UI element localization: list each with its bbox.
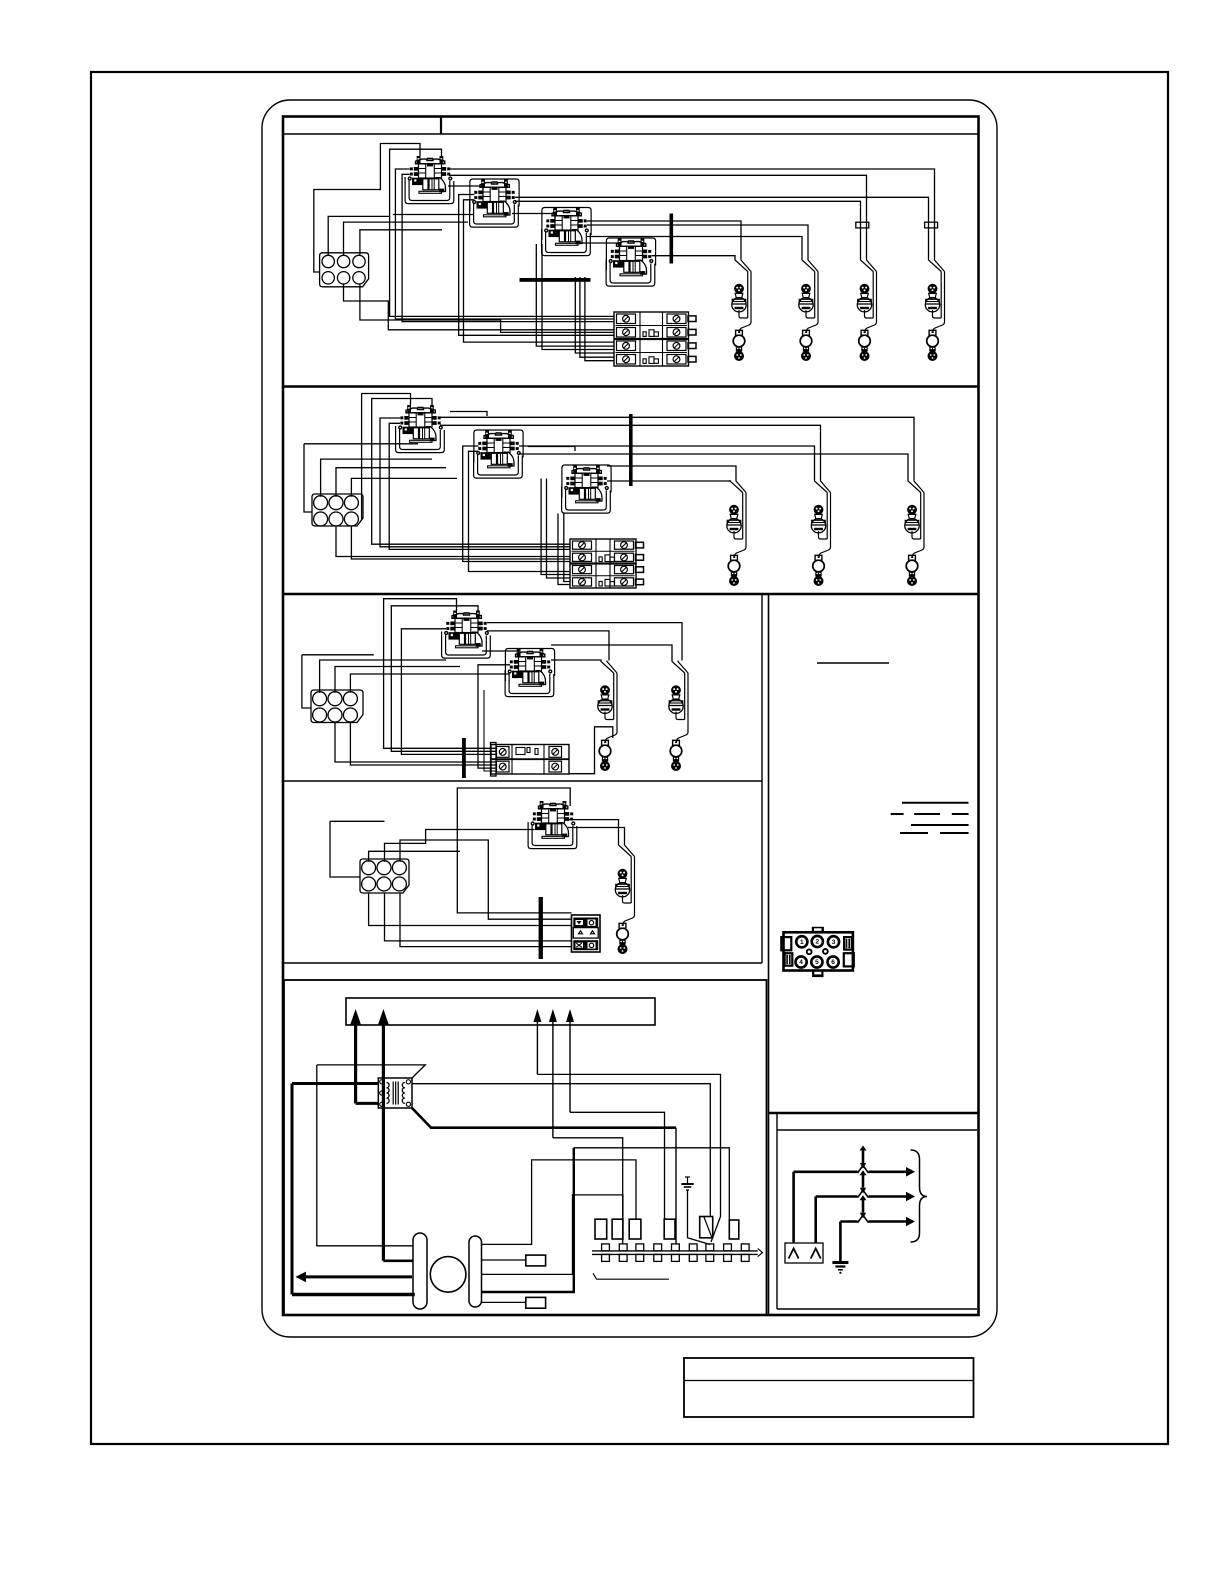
power connector block PL4 (section 4) — [360, 859, 409, 893]
bus: M5 to column 3 (s2) — [440, 417, 914, 480]
power source box — [785, 1243, 823, 1263]
fuse+heating element column 1 (section 3) — [598, 661, 617, 772]
outer border frame — [91, 72, 1168, 1444]
wire: thick bottom run to motor — [292, 1293, 415, 1297]
wire: M2 left to breaker row2c — [459, 195, 614, 336]
note underline upper — [817, 662, 889, 664]
circuit breaker CB5 (section 3) — [491, 745, 569, 775]
contactor M9 (section 3) — [505, 649, 554, 697]
svg-text:1: 1 — [800, 939, 804, 946]
wire: connector pin4 drop (s4) — [369, 893, 572, 926]
wire: M5 left to breaker b (s2) — [389, 423, 570, 549]
wire: M6 drop b (s2) — [547, 479, 571, 579]
wire: M9 drop (s3) — [484, 690, 497, 771]
wire: connector pin2 riser (s4) — [385, 830, 535, 862]
wire: M4 bottom to breaker row4c — [585, 277, 614, 361]
contactor M6 (section 2) — [474, 431, 523, 479]
field wiring disconnect row 3 — [840, 1195, 915, 1226]
divider section1/section2 — [283, 385, 979, 388]
fuse+heating element column 2 (section 2) — [811, 480, 830, 586]
circuit breaker CB6 (section 4) — [572, 915, 601, 952]
thick supply arrow L1 — [350, 1009, 361, 1025]
wire: connector pin6 drop (s3) — [350, 723, 497, 766]
wire: connector pin5 drop (s4) — [385, 893, 572, 941]
wire: transformer diagonal thick to terminal 5 — [412, 1108, 676, 1128]
wire: motor to relay 2 chain — [482, 1195, 623, 1275]
control bus bar — [346, 998, 655, 1025]
fuse+heating element column 2 (section 3) — [669, 661, 688, 772]
wire: control 2 chain to terminal 2 — [553, 1138, 623, 1244]
bus: M2 to column 3 inner — [515, 201, 861, 259]
wire: connector pin1 riser (s3) — [320, 660, 446, 693]
wire: disconnect feed 3 to ground — [839, 1222, 842, 1262]
wire: M5 left to breaker (s2) — [380, 418, 570, 547]
contactor M8 (section 3) — [442, 611, 491, 659]
control arrow 1 — [533, 1009, 541, 1022]
wire: thick motor chain up — [482, 1148, 574, 1292]
wire: thick left vertical — [291, 1084, 294, 1295]
svg-text:4: 4 — [799, 959, 803, 966]
section5 box — [284, 980, 767, 1315]
wire staple around M9 — [505, 649, 554, 682]
wire: left link (s2) — [304, 443, 418, 445]
bottom-right box left edge — [776, 1113, 778, 1309]
wire: connector pin5 to breaker row2 — [344, 284, 615, 330]
right column divider — [768, 594, 770, 1315]
ground symbol (field) — [832, 1263, 848, 1274]
wire: M6 drop (s2) — [541, 479, 570, 575]
rounded enclosure outline — [262, 100, 997, 1337]
wire: motor to relay 3 chain — [482, 1160, 637, 1245]
wire: transformer secondary to relay 5 — [412, 1084, 710, 1217]
terminal strip — [592, 1250, 758, 1252]
wire: M4 bottom to breaker row4b — [580, 277, 614, 357]
insulator bar (section 4) — [539, 897, 543, 959]
wire: M9 top post step (s3) — [482, 651, 519, 656]
note text line 3 — [911, 824, 969, 826]
fuse+heating element column 2 (section 1) — [799, 259, 818, 361]
bus: M3 to column 2 inner — [587, 237, 802, 260]
wire: connector pin2 riser (s3) — [335, 667, 460, 693]
wire: M8 left to breaker (s3) — [401, 629, 497, 755]
bus: M1 to column 3 — [449, 175, 867, 259]
insulator bar (section 1 mid) — [520, 278, 591, 282]
ground symbol (control) — [681, 1177, 693, 1190]
wire: control 3 chain to relay 4 — [570, 1112, 665, 1219]
insulator bar (section 3) — [462, 738, 466, 778]
wire: flag line over transformer — [317, 1065, 426, 1078]
wire: M3 bottom to breaker row3b — [536, 244, 614, 346]
wire: left link (s3) — [302, 654, 374, 656]
brace — [911, 1150, 928, 1242]
bus: M2 to column 4 inner — [515, 197, 929, 259]
top band divider — [440, 117, 442, 135]
sections3-4 right edge — [761, 594, 763, 963]
inner panel box — [283, 117, 979, 1316]
wire: connector pin3 riser (s3) — [350, 674, 509, 693]
insulator bar (section 1 upper) — [670, 214, 674, 264]
bus: M6 to column 2 inner (s2) — [519, 446, 815, 480]
left arrow head on L2 run — [296, 1272, 307, 1283]
wire: connector pin5 drop (s2) — [336, 526, 570, 557]
thick supply arrow L2 — [378, 1009, 389, 1025]
svg-text:5: 5 — [815, 959, 819, 966]
wire: contactor M1 top loop to connector — [314, 144, 420, 273]
wire: motor tap 1 — [482, 1259, 526, 1261]
wire: connector pin2 riser (s2) — [336, 468, 446, 497]
top band line — [283, 133, 979, 135]
section4 bottom edge — [283, 962, 762, 964]
bus: M6 to column 3 inner (s2) — [519, 454, 908, 480]
wire: M6 left to breaker b (s2) — [469, 451, 571, 571]
field wiring disconnect row 1 — [794, 1146, 915, 1177]
wire: breaker output hook (s3) — [569, 727, 613, 774]
wire: M3 top post step — [512, 214, 555, 219]
bus: M3 to column 2 — [587, 225, 808, 259]
callout tick line — [593, 1273, 669, 1279]
note text line 4 — [900, 832, 928, 834]
field wiring disconnect row 2 — [816, 1170, 915, 1201]
divider section3/section4 — [283, 780, 762, 782]
wire: thick run with left arrow — [306, 1275, 412, 1278]
wire: M7 top post step (s2) — [528, 447, 575, 452]
bus: M10 to column inner (s4) — [568, 828, 625, 845]
fuse+heating element column 1 (section 1) — [732, 259, 751, 361]
contactor M5 (section 2) — [396, 405, 445, 453]
wire staple around M7 — [562, 465, 611, 498]
wire: M2 left to breaker row3 — [464, 200, 615, 342]
wire: M6 left to breaker (s2) — [463, 446, 570, 562]
fuse+heating element column 4 (section 1) — [925, 259, 944, 361]
fuse+heating element column 1 (section 4) — [615, 844, 634, 954]
wire: M10 top staple to breaker (s4) — [457, 788, 571, 913]
wire: thick into transformer top-left — [292, 1082, 378, 1085]
svg-text:6: 6 — [831, 959, 835, 966]
wire: M7 drop (s2) — [564, 514, 570, 582]
wire: connector pin5 drop (s3) — [335, 723, 497, 763]
svg-text:3: 3 — [832, 939, 836, 946]
wire: control 1 chain — [537, 1074, 720, 1242]
control arrow 3 — [566, 1009, 574, 1022]
fuse+heating element column 3 (section 1) — [857, 259, 876, 361]
wire: M7 drop b (s2) — [558, 514, 570, 585]
control arrow 2 — [549, 1009, 557, 1022]
wire: M2 top post step — [448, 186, 483, 190]
wire: connector pin3 riser (s2) — [351, 478, 457, 496]
wire: trunk link to contactor M2 — [393, 214, 474, 216]
wire: M8 top loop to breaker (s3) — [384, 599, 497, 749]
wire: M1 top to breaker row1 — [390, 149, 614, 316]
wire: disconnect feed 2 — [814, 1197, 817, 1244]
bus: M7 to column 1 inner (s2) — [607, 479, 730, 482]
wire: left thin drop to motor — [317, 1065, 413, 1246]
wire: connector pin6 drop (s4) — [400, 893, 572, 947]
wire: disconnect feed 1 — [792, 1172, 795, 1243]
note text line 2 — [891, 813, 904, 815]
wire: connector pin2 riser — [344, 222, 469, 255]
plug stub 2 — [526, 1297, 546, 1308]
blower motor with capacitors — [413, 1233, 482, 1309]
wire: M1 left to breaker row1c — [402, 174, 614, 321]
wire staple around M6 — [474, 430, 523, 463]
wire: M4 bottom to breaker row4 — [575, 277, 614, 353]
bus: M7 to column 1 (s2) — [607, 466, 736, 480]
bus: M4 to column 1 inner — [652, 256, 736, 259]
bus: M3 to column 1 — [587, 221, 741, 259]
contactor M4 (section 1) — [606, 239, 655, 287]
contactor M3 (section 1) — [542, 208, 591, 256]
wire: chain to relay 6 — [574, 1148, 730, 1220]
wire lug col4 (section 1) — [925, 222, 938, 228]
wire staple around M3 — [542, 208, 591, 241]
fuse+heating element column 1 (section 2) — [727, 480, 746, 586]
wire: M4 top post step — [576, 243, 620, 249]
wire: connector pin1 riser — [328, 216, 389, 255]
power connector block PL2 (section 2) — [312, 494, 363, 526]
contactor M10 (section 4) — [528, 801, 577, 849]
bus: M9 to column 1 inner (s3) — [551, 659, 601, 662]
bus: M8 to column 1 (s3) — [487, 631, 609, 661]
wire: connector left entry (s4) — [330, 821, 360, 877]
bottom-right box bottom edge — [777, 1308, 977, 1310]
bottom title table — [684, 1358, 974, 1417]
wire: thick L1 into transformer — [356, 1102, 379, 1105]
wire: motor tap 2 — [482, 1301, 526, 1303]
plug stub 1 — [526, 1255, 546, 1266]
wire: M1 left to breaker row1b — [395, 169, 614, 319]
wire: connector pin3 riser — [360, 230, 442, 256]
relay sockets row — [595, 1219, 607, 1239]
bus: M1 to column 4 — [449, 169, 935, 259]
wire: ground to terminal 7 — [688, 1190, 711, 1245]
wire: M3 bottom to breaker row3c — [542, 244, 614, 350]
wire staple around M4 — [606, 238, 655, 271]
note text line 1 — [902, 802, 969, 804]
bus: M10 to column (s4) — [568, 820, 619, 844]
insulator bar (section 2) — [629, 414, 633, 486]
wire: connector pin1 riser (s4) — [369, 851, 460, 862]
relay 5 inner diagonal — [704, 1217, 712, 1238]
svg-text:2: 2 — [815, 939, 819, 946]
contactor M2 (section 1) — [470, 180, 519, 228]
bus: M5 to column 2 (s2) — [440, 425, 821, 480]
wire: connector left entry (s3) — [302, 655, 311, 708]
wire: M8 loop b (s3) — [391, 606, 497, 752]
divider section2/section3 — [283, 593, 979, 596]
wire: connector pin1 riser (s2) — [321, 459, 432, 497]
circuit breakers CB3-CB4 (section 2) — [570, 539, 636, 588]
circuit breakers CB1-CB2 (section 1) — [614, 312, 689, 366]
wire: connector pin6 drop (s2) — [351, 526, 570, 559]
wire: M5 top to breaker row1 (s2) — [372, 399, 570, 545]
wire: connector pin3 riser to breaker (s4) — [400, 840, 572, 919]
wire: left link (s4) — [330, 820, 385, 822]
wire: connector pin6 to breaker row2b — [360, 284, 614, 332]
power connector block PL3 (section 3) — [311, 690, 363, 723]
wire: M5 top loop (section 2) — [362, 394, 411, 521]
bus: M8 to column 2 (s3) — [487, 623, 682, 661]
transformer T1 — [378, 1078, 412, 1108]
bottom-right box top bar — [769, 1112, 979, 1115]
bottom-right box inner line — [777, 1129, 977, 1131]
wire: M6 top post step (s2) — [450, 412, 487, 417]
wire: connector left entry (s2) — [304, 444, 312, 512]
power connector block PL1 (section 1) — [320, 253, 369, 287]
contactor M1 (section 1) — [405, 156, 454, 204]
bus: M9 to column 2 inner (s3) — [551, 645, 672, 661]
wire lug col3 (section 1) — [856, 222, 869, 228]
contactor M7 (section 2) — [562, 466, 611, 514]
wire: thick L2 into motor capacitor — [383, 1260, 413, 1263]
wire: M9 left to breaker (s3) — [478, 665, 510, 768]
wire staple around M2 — [470, 179, 519, 212]
interlock plug connector (right column) — [784, 932, 853, 970]
fuse+heating element column 3 (section 2) — [905, 480, 924, 586]
